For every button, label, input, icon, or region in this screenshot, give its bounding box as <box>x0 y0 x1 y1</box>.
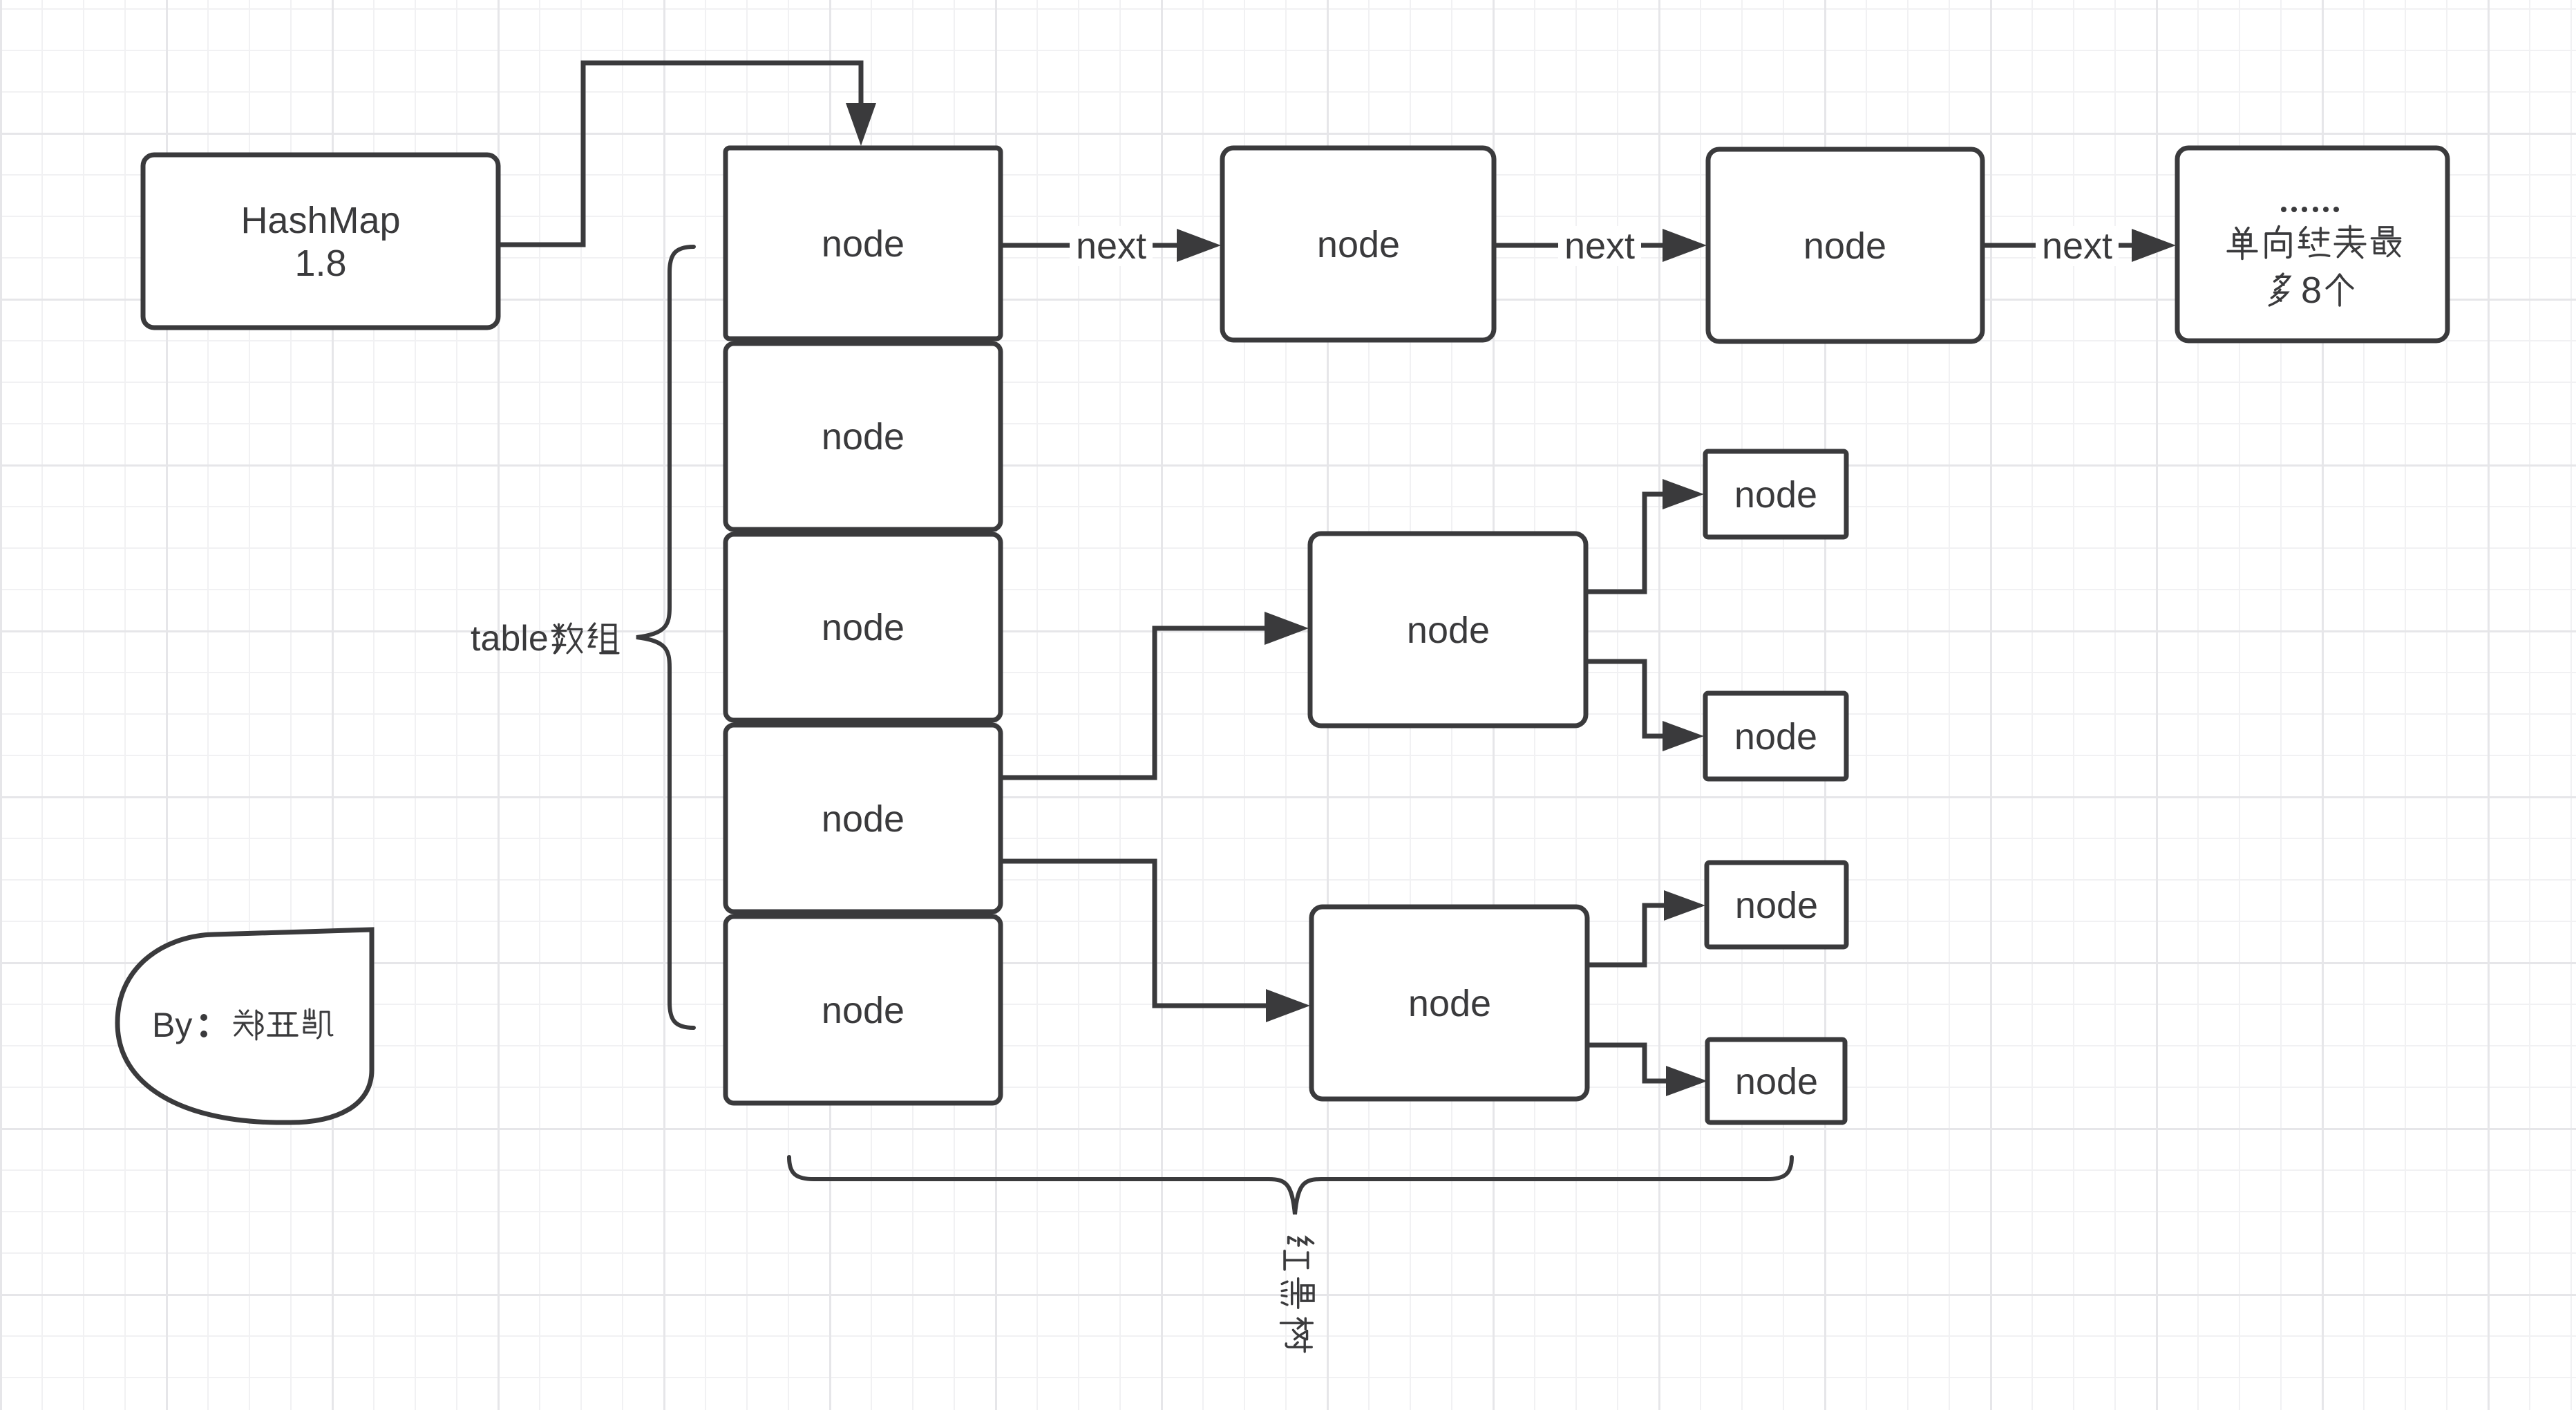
svg-text:node: node <box>1803 225 1886 267</box>
svg-text:node: node <box>822 416 905 458</box>
svg-text:node: node <box>1408 983 1491 1024</box>
svg-text:node: node <box>1735 1061 1818 1102</box>
svg-text:By: By <box>152 1006 192 1044</box>
svg-text:node: node <box>1735 885 1818 926</box>
svg-text:8: 8 <box>2301 270 2322 311</box>
svg-text:next: next <box>2042 225 2112 267</box>
svg-text:node: node <box>1317 224 1400 265</box>
svg-text:node: node <box>822 223 905 265</box>
svg-text:node: node <box>1734 716 1817 758</box>
svg-text:next: next <box>1076 225 1146 267</box>
svg-text:table: table <box>471 619 549 659</box>
svg-text:node: node <box>822 607 905 648</box>
svg-text:node: node <box>1407 610 1490 651</box>
svg-text:node: node <box>822 990 905 1031</box>
svg-text:node: node <box>1734 474 1817 516</box>
svg-text:1.8: 1.8 <box>294 243 346 284</box>
svg-text:node: node <box>822 798 905 840</box>
svg-text:HashMap: HashMap <box>240 200 400 241</box>
svg-text:next: next <box>1564 225 1635 267</box>
